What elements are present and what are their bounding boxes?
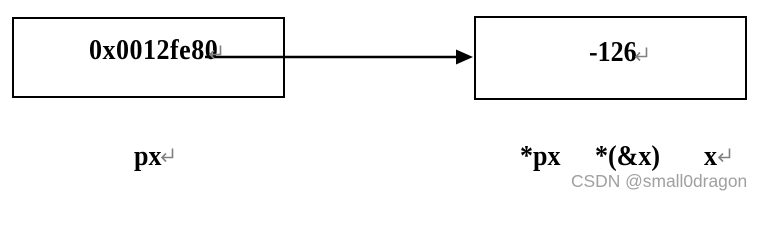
box: pointer variable cell (left) <box>12 17 285 98</box>
label: px (pointer variable name) <box>134 142 161 171</box>
value label: -126 stored in x <box>589 38 637 67</box>
watermark: CSDN @small0dragon <box>571 172 747 190</box>
box: pointed-to variable cell (right) <box>474 16 747 100</box>
value label: address stored in px <box>89 36 218 65</box>
label: x <box>704 142 717 171</box>
label: *px <box>520 142 560 171</box>
label: *(&x) <box>595 142 660 171</box>
